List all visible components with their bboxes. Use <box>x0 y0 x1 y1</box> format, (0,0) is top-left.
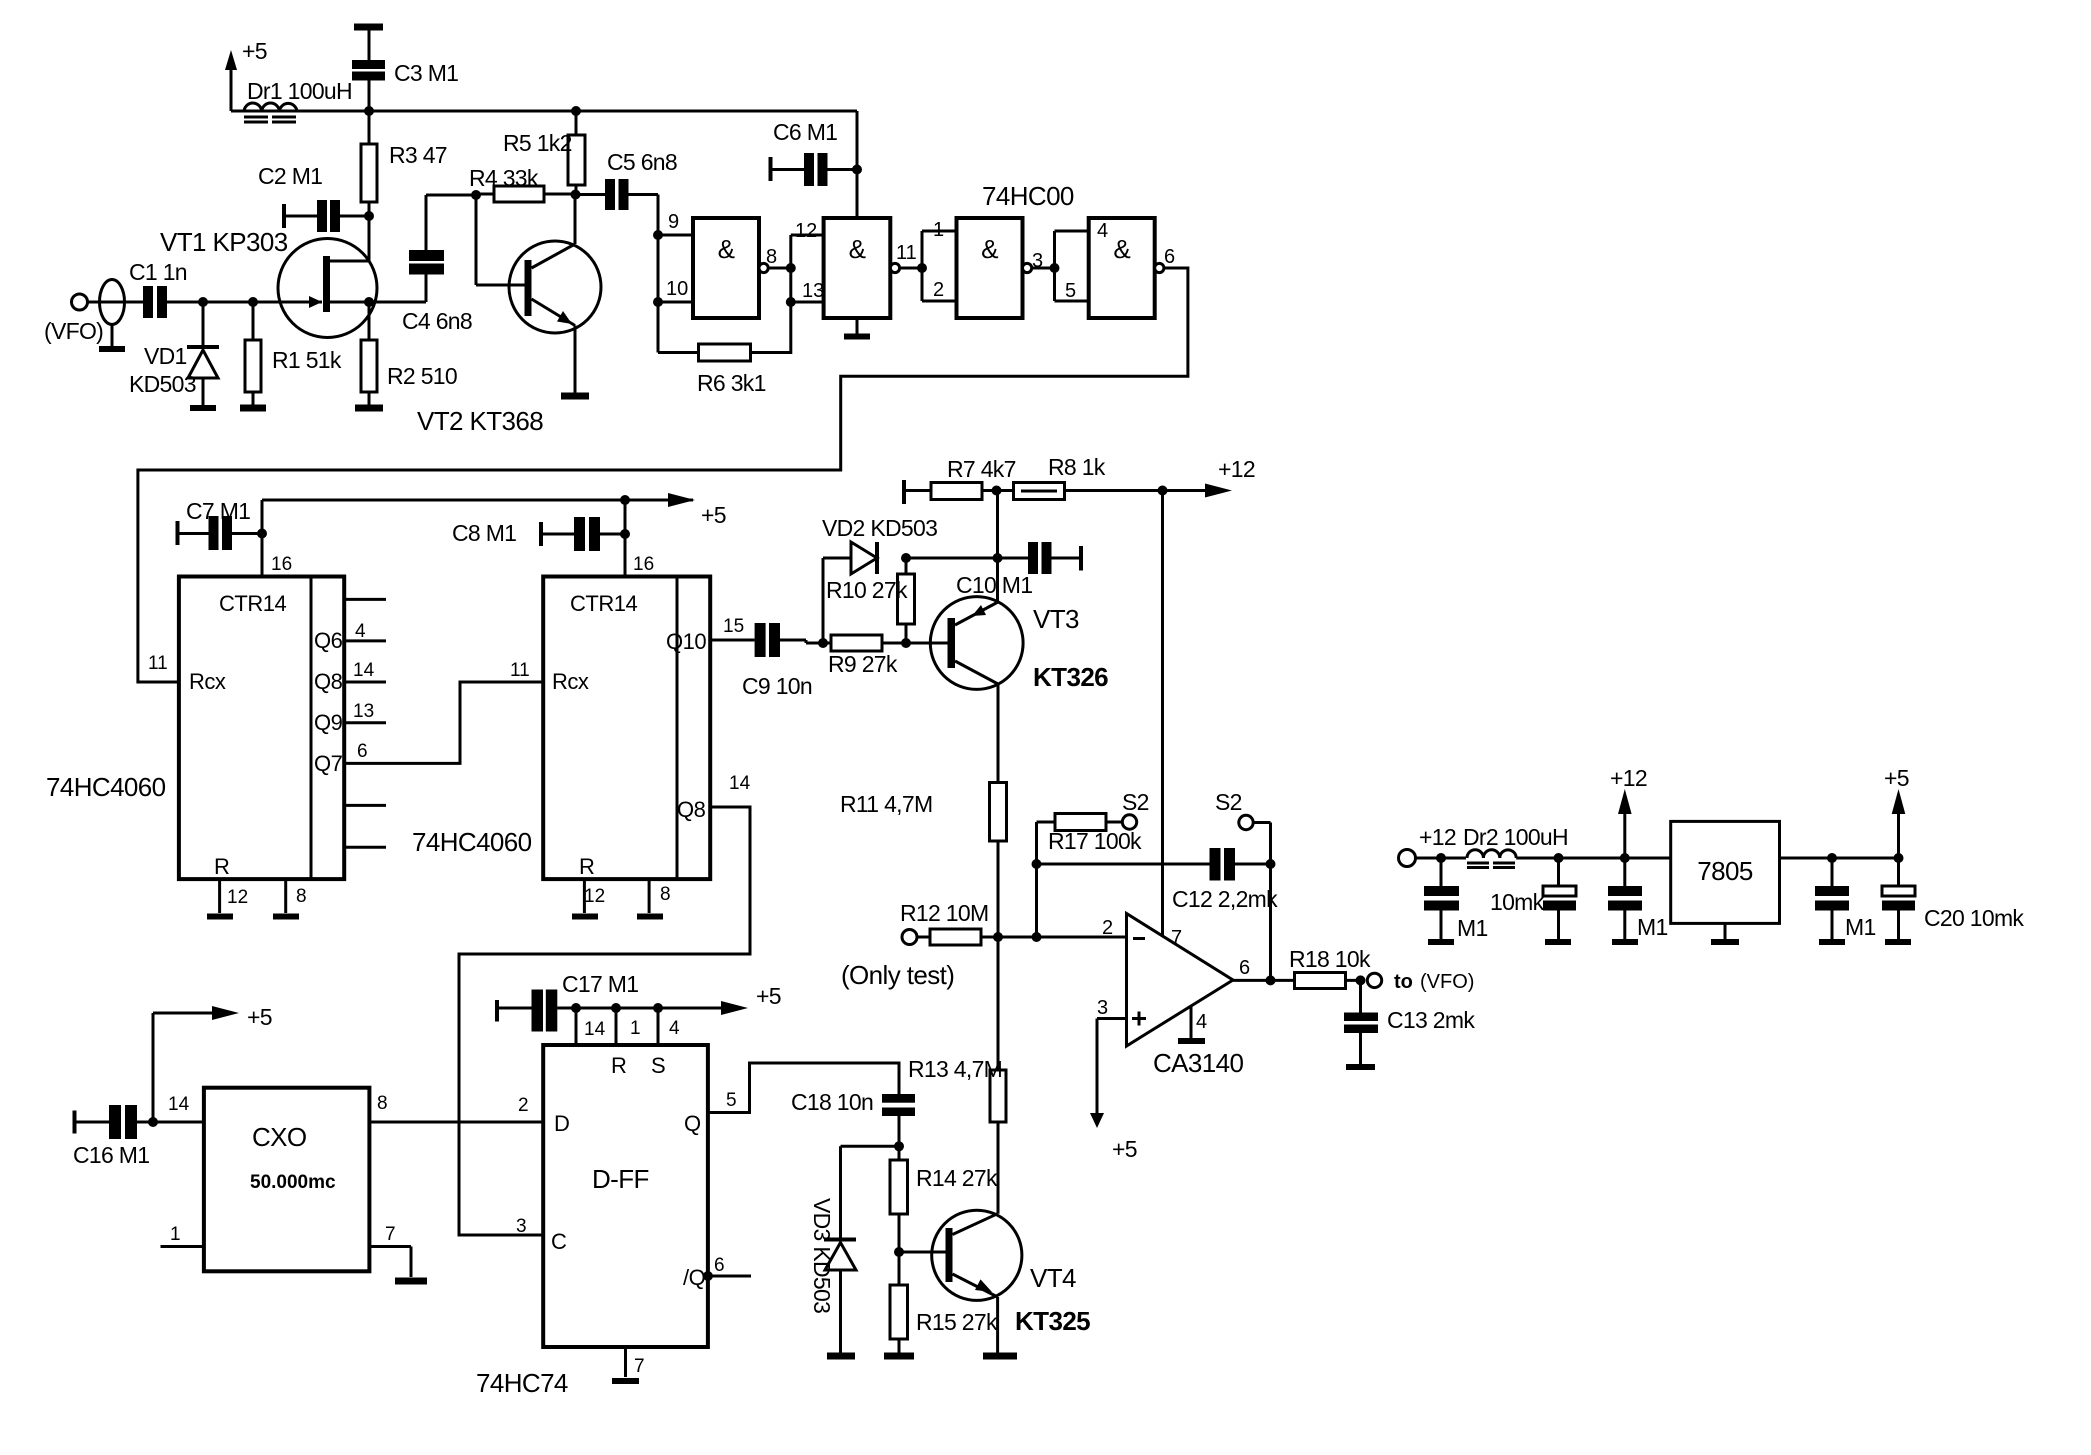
wire /Q pin6 stub <box>708 1275 751 1278</box>
wire CXO pin8 to D input <box>369 1121 543 1124</box>
svg-text:4: 4 <box>1196 1011 1207 1033</box>
node +5 supply arrow (top left) <box>225 38 267 111</box>
wire Q7 pin6 to counter2 Rcx <box>344 682 543 763</box>
svg-text:3: 3 <box>1032 250 1043 272</box>
svg-text:(Only test): (Only test) <box>841 960 954 990</box>
node C12 left junction <box>1032 859 1042 869</box>
svg-text:(VFO): (VFO) <box>44 318 103 344</box>
svg-text:4: 4 <box>669 1018 680 1039</box>
terminal +12 input <box>1399 824 1456 867</box>
terminal (VFO) input <box>44 294 103 344</box>
svg-text:12: 12 <box>584 886 605 907</box>
svg-text:11: 11 <box>896 242 917 264</box>
svg-text:R18 10k: R18 10k <box>1289 946 1371 972</box>
svg-text:VD2 KD503: VD2 KD503 <box>822 515 937 541</box>
wire Q8 pin14 stub <box>344 681 386 684</box>
node +12 junction <box>1158 486 1168 496</box>
svg-text:+5: +5 <box>756 983 781 1009</box>
svg-text:1: 1 <box>170 1224 181 1245</box>
svg-text:&: & <box>1113 234 1130 264</box>
node R7/R8 junction <box>992 486 1002 496</box>
resistor R1 51k <box>240 302 342 408</box>
svg-text:CXO: CXO <box>252 1122 307 1152</box>
svg-text:6: 6 <box>714 1255 725 1276</box>
svg-text:M1: M1 <box>1845 914 1876 940</box>
node pin1 junction <box>611 1003 621 1013</box>
node VT1 source junction <box>364 297 374 307</box>
capacitor M1 pre-regulator <box>1608 858 1668 942</box>
resistor R11 4,7M <box>840 783 1007 938</box>
capacitor 10mk electrolytic <box>1490 858 1576 942</box>
svg-text:C3 M1: C3 M1 <box>394 60 458 86</box>
svg-text:CTR14: CTR14 <box>570 591 637 616</box>
wire +5 rail D-FF <box>557 1007 722 1010</box>
svg-text:Rcx: Rcx <box>552 669 589 694</box>
ground counter1 pin8 <box>273 879 307 916</box>
inductor Dr1 100uH <box>244 78 352 122</box>
node pin14 junction <box>571 1003 581 1013</box>
capacitor C6 M1 <box>771 119 858 186</box>
svg-text:74HC74: 74HC74 <box>476 1368 568 1398</box>
node +5 arrow counters <box>668 493 726 528</box>
node input cap junction <box>1436 853 1446 863</box>
svg-text:to: to <box>1394 971 1413 993</box>
svg-text:4: 4 <box>1097 220 1108 242</box>
resistor R8 1k <box>1014 454 1163 500</box>
wire C10 row <box>906 557 1028 560</box>
capacitor M1 input <box>1424 858 1488 942</box>
svg-text:7805: 7805 <box>1697 856 1753 886</box>
svg-text:14: 14 <box>168 1094 190 1115</box>
ground D-FF pin7 <box>612 1347 645 1381</box>
wire pin2 stub <box>922 300 957 303</box>
node C12 right junction <box>1266 859 1276 869</box>
transistor VT1 KP303 (JFET) <box>160 216 377 338</box>
resistor R15 27k <box>884 1285 998 1356</box>
svg-text:C18 10n: C18 10n <box>791 1089 873 1115</box>
transistor VT3 KT326 <box>906 597 1108 783</box>
resistor R2 510 <box>355 302 457 408</box>
wire op-amp output <box>1233 979 1295 982</box>
ground counter2 pin8 <box>637 879 671 916</box>
node junction rail/R3 <box>364 106 374 116</box>
svg-text:R2 510: R2 510 <box>387 363 457 389</box>
svg-text:12: 12 <box>227 887 248 908</box>
node R4/base junction <box>471 190 481 200</box>
svg-text:R10 27k: R10 27k <box>826 577 908 603</box>
capacitor C12 2,2mk <box>1172 848 1278 912</box>
wire Q8 pin14 to D-FF clock <box>459 807 750 1235</box>
svg-text:VT1 KP303: VT1 KP303 <box>160 227 288 257</box>
svg-text:8: 8 <box>377 1093 388 1114</box>
wire gate D output feedback to counters <box>138 268 1188 682</box>
svg-text:C8 M1: C8 M1 <box>452 520 516 546</box>
svg-text:(VFO): (VFO) <box>1420 971 1474 993</box>
capacitor C20 10mk <box>1882 858 2024 942</box>
capacitor C4 6n8 <box>369 195 476 334</box>
diode VD2 KD503 <box>822 515 937 643</box>
node 10mk junction <box>1554 853 1564 863</box>
flip-flop U5 74HC74 D-FF <box>543 1045 708 1347</box>
svg-text:R3 47: R3 47 <box>389 142 447 168</box>
svg-text:C9 10n: C9 10n <box>742 673 812 699</box>
node R14/R15/base junction <box>894 1247 904 1257</box>
svg-text:R: R <box>611 1053 626 1078</box>
svg-text:C20 10mk: C20 10mk <box>1924 905 2024 931</box>
svg-text:R8 1k: R8 1k <box>1048 454 1106 480</box>
node VD2/R10 junction <box>901 553 911 563</box>
svg-text:2: 2 <box>933 279 944 301</box>
wire counter1 pin16 riser <box>261 500 264 577</box>
resistor R10 27k <box>826 558 915 643</box>
svg-text:10mk: 10mk <box>1490 889 1545 915</box>
wire CXO pin1 stub <box>161 1245 204 1248</box>
node pin13 junction <box>786 297 796 307</box>
svg-text:R13 4,7M: R13 4,7M <box>908 1056 1002 1082</box>
wire inverting input row <box>998 936 1127 939</box>
node pin1/2 junction <box>917 263 927 273</box>
wire counter1 output stub c <box>344 846 386 849</box>
svg-text:1: 1 <box>933 219 944 241</box>
capacitor C5 6n8 <box>576 149 677 210</box>
node R4/R5/C5/collector junction <box>571 190 581 200</box>
svg-text:C1 1n: C1 1n <box>129 259 187 285</box>
wire R17/C12 riser <box>1035 822 1038 937</box>
svg-text:R11 4,7M: R11 4,7M <box>840 791 932 817</box>
resistor R7 4k7 <box>904 456 1016 504</box>
svg-text:3: 3 <box>516 1216 527 1237</box>
ground CXO pin7 <box>369 1224 427 1281</box>
resistor R5 1k2 <box>503 111 585 194</box>
resistor R12 10M <box>917 929 998 945</box>
svg-text:R17 100k: R17 100k <box>1048 828 1142 854</box>
capacitor C18 10n <box>791 1089 915 1146</box>
wire Q9 pin13 stub <box>344 721 386 724</box>
capacitor C13 2mk <box>1344 980 1475 1067</box>
svg-text:7: 7 <box>1171 927 1182 949</box>
terminal S2 a <box>1122 789 1149 829</box>
svg-text:1: 1 <box>630 1018 641 1039</box>
svg-text:14: 14 <box>584 1019 606 1040</box>
wire pin12 stub <box>791 234 824 237</box>
wire +5 rail top <box>231 110 857 113</box>
svg-text:&: & <box>849 234 866 264</box>
node emitter/C10 junction <box>993 553 1003 563</box>
resistor R3 47 <box>361 111 447 216</box>
wire C12 right to output <box>1269 864 1272 980</box>
node C16 junction <box>148 1117 158 1127</box>
wire +12 input <box>1416 857 1467 860</box>
wire 7805 output <box>1780 857 1899 860</box>
svg-text:11: 11 <box>510 660 530 681</box>
svg-text:R7 4k7: R7 4k7 <box>947 456 1016 482</box>
svg-text:Dr2 100uH: Dr2 100uH <box>1463 824 1568 850</box>
wire counter1 output stub a <box>344 598 386 601</box>
diode VD3 KD503 <box>809 1146 899 1356</box>
svg-text:R1 51k: R1 51k <box>272 347 342 373</box>
node /Q pin6 <box>703 1271 713 1281</box>
svg-text:VT4: VT4 <box>1030 1263 1076 1293</box>
svg-text:11: 11 <box>148 653 168 674</box>
svg-text:Rcx: Rcx <box>189 669 226 694</box>
svg-text:74HC00: 74HC00 <box>982 181 1074 211</box>
wire pin5 stub <box>1055 300 1089 303</box>
wire gate B output <box>900 267 922 270</box>
node C8 rail junction <box>620 495 630 505</box>
svg-text:Q9: Q9 <box>314 710 343 735</box>
terminal Only test <box>841 900 988 990</box>
capacitor C8 M1 <box>452 517 625 551</box>
svg-text:+5: +5 <box>242 38 267 64</box>
svg-text:10: 10 <box>666 278 688 300</box>
node R1 junction <box>248 297 258 307</box>
gate U1C 74HC00 <box>957 218 1032 318</box>
capacitor C2 M1 <box>258 163 369 232</box>
svg-text:R5 1k2: R5 1k2 <box>503 130 572 156</box>
wire to R6 right <box>751 302 791 353</box>
svg-text:Q: Q <box>684 1111 701 1136</box>
svg-text:KT326: KT326 <box>1033 662 1108 692</box>
svg-text:S2: S2 <box>1215 789 1242 815</box>
svg-text:7: 7 <box>385 1224 396 1245</box>
svg-text:&: & <box>718 234 735 264</box>
wire input row <box>203 301 322 304</box>
svg-text:7: 7 <box>634 1356 645 1377</box>
wire pin1 riser <box>615 1008 618 1045</box>
node pin4/5 junction <box>1050 263 1060 273</box>
node +12 arrow power <box>1610 765 1647 863</box>
node R9/R10/base junction <box>901 638 911 648</box>
svg-text:S2: S2 <box>1122 789 1149 815</box>
svg-text:R9 27k: R9 27k <box>828 651 898 677</box>
svg-text:5: 5 <box>726 1090 737 1111</box>
wire VT3 emitter riser <box>996 491 999 603</box>
svg-text:VD3 KD503: VD3 KD503 <box>809 1198 835 1313</box>
svg-text:C5 6n8: C5 6n8 <box>607 149 677 175</box>
wire +5 rail counters <box>262 499 693 502</box>
wire C12 row <box>1037 863 1210 866</box>
capacitor C7 M1 <box>178 498 263 550</box>
svg-text:6: 6 <box>1239 957 1250 979</box>
svg-text:15: 15 <box>723 616 744 637</box>
wire counter2 pin16 riser <box>624 500 627 577</box>
resistor R4 33k <box>469 165 576 202</box>
capacitor C17 M1 <box>497 971 638 1032</box>
svg-text:C12 2,2mk: C12 2,2mk <box>1172 886 1278 912</box>
inductor Dr2 100uH <box>1463 824 1568 868</box>
svg-text:&: & <box>981 234 998 264</box>
node R18/C13 junction <box>1356 975 1366 985</box>
transistor VT4 KT325 <box>899 1210 1090 1356</box>
diode VD1 KD503 <box>129 302 219 408</box>
wire Dr2 to 7805 <box>1516 857 1671 860</box>
svg-text:9: 9 <box>668 211 679 233</box>
svg-text:R6 3k1: R6 3k1 <box>697 370 766 396</box>
svg-text:13: 13 <box>353 701 374 722</box>
svg-text:50.000mc: 50.000mc <box>250 1172 336 1193</box>
node gate A pin9 <box>653 230 663 240</box>
svg-text:4: 4 <box>355 621 366 642</box>
svg-text:8: 8 <box>660 884 671 905</box>
ground counter1 pin12 <box>207 879 248 916</box>
resistor R17 100k <box>1037 814 1143 855</box>
svg-text:VD1: VD1 <box>144 343 187 369</box>
svg-text:74HC4060: 74HC4060 <box>46 772 166 802</box>
wire pin4 stub <box>1055 230 1089 233</box>
svg-text:VT2 KT368: VT2 KT368 <box>417 406 543 436</box>
svg-text:D-FF: D-FF <box>592 1164 649 1194</box>
wire gate A output <box>768 267 791 270</box>
svg-text:M1: M1 <box>1637 914 1668 940</box>
svg-text:/Q: /Q <box>683 1265 706 1290</box>
svg-text:+12: +12 <box>1610 765 1647 791</box>
node R11/R12/R13 junction <box>993 932 1003 942</box>
wire pin9 stub <box>658 234 693 237</box>
node pin4 junction <box>653 1003 663 1013</box>
terminal S2 b <box>1215 789 1271 864</box>
svg-text:D: D <box>554 1111 569 1136</box>
svg-text:KD503: KD503 <box>129 371 196 397</box>
node +5 down arrow <box>1090 1113 1137 1162</box>
counter U3 74HC4060 CTR14 <box>543 577 710 880</box>
node output cap junction <box>1827 853 1837 863</box>
svg-text:14: 14 <box>353 660 375 681</box>
svg-text:+5: +5 <box>1884 765 1909 791</box>
resistor R9 27k <box>823 635 906 677</box>
node rail/R5 junction <box>571 106 581 116</box>
svg-text:R4 33k: R4 33k <box>469 165 539 191</box>
svg-text:Q6: Q6 <box>314 628 343 653</box>
node output junction <box>1266 975 1276 985</box>
svg-text:+12: +12 <box>1419 824 1456 850</box>
wire non-inverting input <box>1097 1019 1127 1114</box>
node pin8 junction <box>786 263 796 273</box>
resistor R18 10k <box>1289 946 1371 989</box>
wire Q10 pin15 stub <box>710 639 754 642</box>
gate U1D 74HC00 <box>1089 218 1164 318</box>
capacitor C9 10n <box>742 623 823 699</box>
wire pin4 riser <box>657 1008 660 1045</box>
node R17/C12 tie to pin2 <box>1032 932 1042 942</box>
gate U1A 74HC00 <box>693 218 768 318</box>
node VD2/R9 left junction <box>818 638 828 648</box>
svg-text:13: 13 <box>802 280 824 302</box>
wire Q6 pin4 stub <box>344 639 386 642</box>
capacitor M1 post-regulator <box>1815 858 1876 942</box>
svg-text:R: R <box>214 854 229 879</box>
capacitor C10 M1 <box>956 542 1081 598</box>
resistor R14 27k <box>890 1146 998 1285</box>
svg-text:C17 M1: C17 M1 <box>562 971 638 997</box>
wire gate C output <box>1032 267 1055 270</box>
capacitor C3 M1 <box>352 27 458 111</box>
svg-text:M1: M1 <box>1457 915 1488 941</box>
gate U1B 74HC00 <box>824 218 900 318</box>
node +5 arrow D-FF <box>721 983 781 1015</box>
svg-text:R15 27k: R15 27k <box>916 1309 998 1335</box>
oscillator CXO 50.000mc <box>204 1088 370 1272</box>
node C1/VD1 junction <box>198 297 208 307</box>
svg-text:+5: +5 <box>1112 1136 1137 1162</box>
svg-text:R: R <box>579 854 594 879</box>
svg-text:C7 M1: C7 M1 <box>186 498 250 524</box>
node gate A pin10 <box>653 297 663 307</box>
node +5 arrow CXO <box>153 1004 272 1122</box>
resistor R13 4,7M <box>908 937 1006 1214</box>
wire Q output pin5 to C18 <box>708 1063 899 1113</box>
op-amp U4 CA3140 <box>1127 914 1244 1079</box>
svg-text:R12 10M: R12 10M <box>900 900 988 926</box>
svg-text:Q10: Q10 <box>666 629 706 654</box>
wire CXO pin14 <box>153 1121 204 1124</box>
svg-text:Q8: Q8 <box>677 797 706 822</box>
node C8 junction <box>620 529 630 539</box>
node C6 junction <box>852 165 862 175</box>
node C7 junction <box>257 529 267 539</box>
svg-text:C2 M1: C2 M1 <box>258 163 322 189</box>
terminal to VFO <box>1367 971 1474 993</box>
svg-text:S: S <box>651 1053 665 1078</box>
svg-text:VT3: VT3 <box>1033 604 1079 634</box>
wire pin13 stub <box>791 301 824 304</box>
svg-text:12: 12 <box>795 220 817 242</box>
wire pin4/5 tie <box>1053 231 1056 301</box>
svg-text:Q8: Q8 <box>314 669 343 694</box>
svg-text:C10 M1: C10 M1 <box>956 572 1032 598</box>
node drain junction <box>364 211 374 221</box>
counter U2 74HC4060 CTR14 <box>179 577 344 880</box>
svg-text:Q7: Q7 <box>314 751 343 776</box>
svg-text:Dr1 100uH: Dr1 100uH <box>247 78 352 104</box>
svg-text:C6 M1: C6 M1 <box>773 119 837 145</box>
transistor VT2 KT368 <box>417 195 601 437</box>
capacitor C16 M1 <box>73 1105 153 1168</box>
svg-text:8: 8 <box>296 886 307 907</box>
svg-text:2: 2 <box>518 1095 529 1116</box>
svg-text:C4 6n8: C4 6n8 <box>402 308 472 334</box>
svg-text:C16 M1: C16 M1 <box>73 1142 149 1168</box>
svg-text:6: 6 <box>357 741 368 762</box>
svg-text:CA3140: CA3140 <box>1153 1048 1243 1078</box>
svg-text:2: 2 <box>1102 917 1113 939</box>
wire rail corner down to gate B <box>856 111 859 218</box>
wire pin14 riser <box>575 1008 578 1045</box>
svg-text:14: 14 <box>729 773 751 794</box>
wire pin1 stub <box>922 230 957 233</box>
wire pin12/13 tie <box>789 235 792 302</box>
node +12 arrow <box>1163 456 1255 498</box>
resistor R6 3k1 <box>658 344 766 396</box>
svg-text:R14 27k: R14 27k <box>916 1165 998 1191</box>
ground op-amp pin4 <box>1178 1006 1207 1041</box>
svg-text:16: 16 <box>633 554 654 575</box>
svg-text:KT325: KT325 <box>1015 1306 1090 1336</box>
svg-text:8: 8 <box>766 246 777 268</box>
svg-text:+5: +5 <box>247 1004 272 1030</box>
ground counter2 pin12 <box>572 879 605 916</box>
svg-text:C13 2mk: C13 2mk <box>1387 1007 1475 1033</box>
svg-text:5: 5 <box>1065 280 1076 302</box>
svg-text:74HC4060: 74HC4060 <box>412 827 532 857</box>
svg-text:+5: +5 <box>701 502 726 528</box>
svg-text:CTR14: CTR14 <box>219 591 286 616</box>
wire C5 to gate A inputs <box>657 195 660 353</box>
node +5 arrow power <box>1884 765 1909 863</box>
regulator 7805 <box>1671 821 1780 942</box>
wire counter1 output stub b <box>344 804 386 807</box>
svg-text:+12: +12 <box>1218 456 1255 482</box>
wire pin1/2 tie <box>921 231 924 301</box>
